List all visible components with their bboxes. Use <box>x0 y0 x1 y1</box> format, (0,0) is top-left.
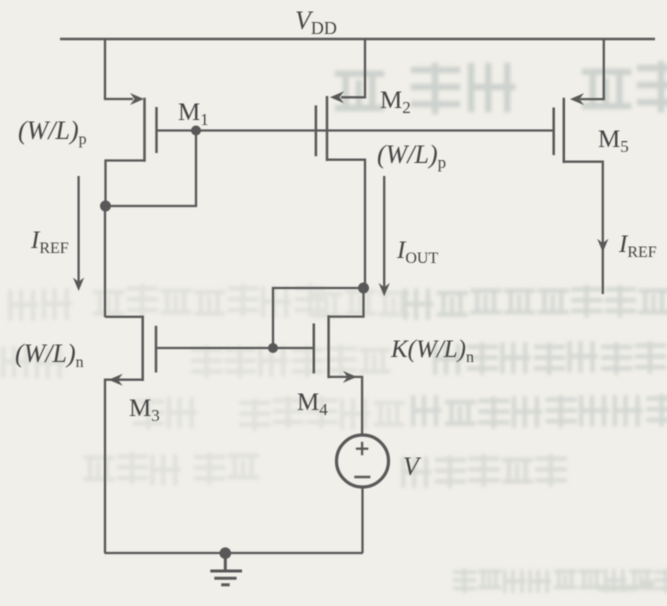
label (W/L)p middle <box>377 140 446 172</box>
net VDD label <box>295 6 337 38</box>
VDD rail <box>60 38 655 41</box>
label M4 <box>297 389 328 419</box>
transistor M3 <box>105 316 156 554</box>
label IREF left <box>30 227 69 257</box>
wire gate node to output node <box>273 288 364 348</box>
transistor M4 <box>314 315 362 435</box>
node output (M2 drain) <box>358 283 369 294</box>
wire ground rail <box>105 552 363 554</box>
voltage source V <box>337 435 389 487</box>
wire common gate bus to M2 and M5 <box>196 129 553 131</box>
wire M3/M4 gate bus <box>157 347 313 349</box>
ground <box>210 553 242 585</box>
node A (M1 drain / IREF) <box>100 201 111 212</box>
label M3 <box>129 395 160 425</box>
current arrow IOUT <box>379 176 390 296</box>
label IREF right <box>618 231 657 261</box>
svg-text:(W/L)p: (W/L)p <box>18 116 87 148</box>
svg-text:(W/L)p: (W/L)p <box>377 140 446 172</box>
node ground <box>220 547 232 559</box>
wire M1 diode connection <box>106 131 197 207</box>
label (W/L)n <box>15 339 84 371</box>
transistor M5 <box>554 98 603 294</box>
wire M2 source from VDD <box>330 39 365 103</box>
wire node A to M3 drain <box>104 206 106 317</box>
wire M5 source from VDD <box>570 39 604 105</box>
svg-text:(W/L)n: (W/L)n <box>15 339 84 371</box>
node M1 gate <box>191 126 201 136</box>
label K(W/L)n <box>390 336 474 366</box>
wire output node to M4 drain <box>329 288 364 317</box>
svg-text:K(W/L)n: K(W/L)n <box>390 336 474 366</box>
label V <box>403 452 422 481</box>
label M5 <box>598 126 629 156</box>
current arrow IREF left <box>73 176 84 291</box>
label M1 <box>178 99 209 129</box>
label (W/L)p left <box>18 116 87 148</box>
wire V source to ground rail <box>361 486 363 553</box>
wire M1 source from VDD <box>105 39 144 105</box>
label M2 <box>380 87 411 117</box>
label IOUT <box>396 237 438 267</box>
transistor M1 <box>106 98 197 206</box>
current arrow IREF right (on M5 drain wire) <box>597 239 608 253</box>
node M3/M4 gate <box>268 343 278 353</box>
transistor M2 <box>316 96 365 288</box>
